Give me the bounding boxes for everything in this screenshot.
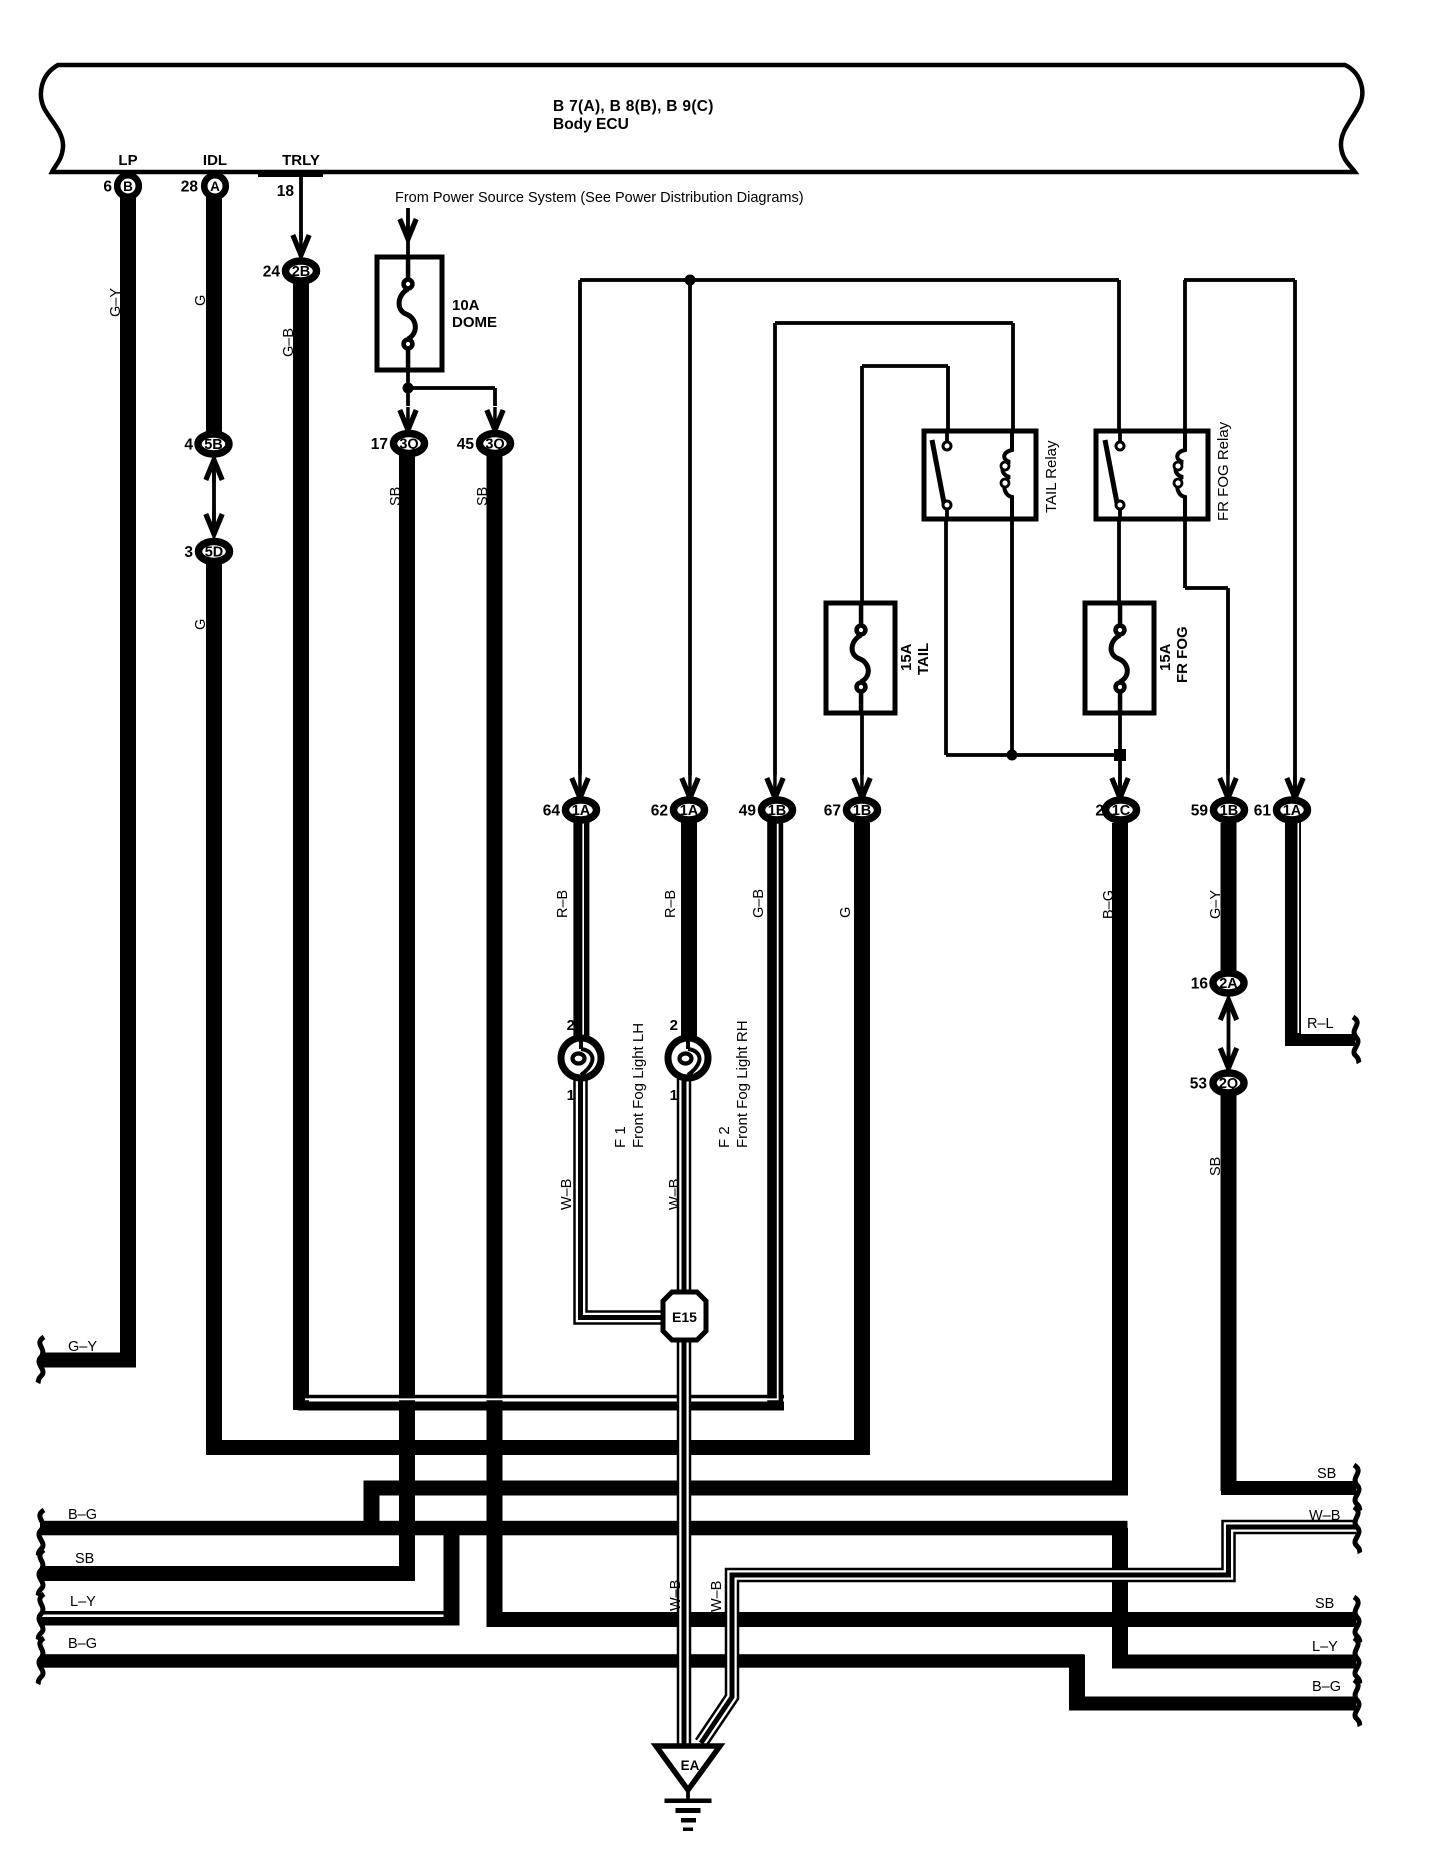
wire R-L from 61 down: [1285, 810, 1301, 1046]
svg-text:W–B: W–B: [1309, 1508, 1340, 1524]
svg-text:G–Y: G–Y: [68, 1339, 97, 1355]
svg-text:F 2: F 2: [716, 1126, 733, 1148]
svg-text:B: B: [123, 179, 133, 194]
svg-text:A: A: [210, 179, 220, 194]
SB right upper bus: [1221, 1481, 1356, 1495]
wire H1 to FR FOG relay switch: [1117, 280, 1121, 433]
svg-text:SB: SB: [1315, 1596, 1334, 1612]
torn end SB2 right: [1354, 1597, 1360, 1643]
ECU connector tab at TRLY: [258, 170, 323, 177]
svg-text:SB: SB: [475, 487, 491, 506]
svg-text:2: 2: [1095, 803, 1104, 820]
connector 5B pin 4: [198, 434, 229, 454]
svg-text:5D: 5D: [205, 545, 224, 561]
wire G-B from 2B down: [293, 270, 309, 1410]
svg-text:17: 17: [371, 436, 388, 453]
svg-text:1B: 1B: [853, 803, 872, 819]
connector 3Q pin 45: [480, 434, 511, 454]
wire W-B E15 to EA ground: [677, 1335, 692, 1746]
svg-text:4: 4: [184, 437, 193, 454]
svg-text:B 7(A), B 8(B), B 9(C): B 7(A), B 8(B), B 9(C): [553, 98, 714, 115]
Body ECU box: [41, 65, 1362, 172]
svg-text:TAIL: TAIL: [915, 643, 932, 675]
torn end R-L right: [1353, 1017, 1359, 1063]
svg-text:TRLY: TRLY: [282, 152, 320, 169]
wire H2 to TAIL relay coil: [1011, 323, 1015, 433]
svg-text:EA: EA: [681, 1758, 700, 1773]
svg-text:G–B: G–B: [751, 889, 767, 918]
svg-text:2A: 2A: [1219, 976, 1238, 992]
svg-text:49: 49: [739, 803, 757, 820]
svg-text:G–B: G–B: [281, 328, 297, 357]
svg-text:1A: 1A: [680, 803, 699, 819]
svg-text:3Q: 3Q: [485, 437, 504, 453]
connector circle A pin 28: [204, 175, 226, 197]
svg-text:G–Y: G–Y: [108, 288, 124, 317]
svg-text:L–Y: L–Y: [70, 1594, 96, 1610]
connector 1A pin 62: [674, 800, 705, 820]
connector 1B pin 49: [762, 800, 793, 820]
B-G bottom bus right: [1070, 1697, 1357, 1711]
svg-text:G–Y: G–Y: [1208, 890, 1224, 919]
node H3 line y366: [862, 364, 948, 368]
svg-text:2: 2: [567, 1017, 575, 1034]
svg-text:FR FOG: FR FOG: [1174, 626, 1191, 683]
svg-text:Body ECU: Body ECU: [553, 116, 629, 133]
fuse 10A DOME: [377, 257, 442, 370]
wire G-Y from pin B down and to left edge: [120, 190, 136, 1368]
svg-text:Front Fog Light RH: Front Fog Light RH: [734, 1020, 751, 1148]
svg-text:W–B: W–B: [668, 1580, 684, 1611]
ground point E15: [663, 1292, 706, 1340]
svg-text:E15: E15: [672, 1309, 697, 1325]
svg-text:67: 67: [824, 803, 841, 820]
svg-text:1A: 1A: [1283, 803, 1302, 819]
svg-text:From Power Source System (See: From Power Source System (See Power Dist…: [395, 190, 804, 206]
svg-text:1B: 1B: [1220, 803, 1239, 819]
fuse 15A FR FOG: [1085, 603, 1154, 713]
wire W-B fog RH to E15: [677, 1079, 692, 1300]
white stripe on 64 wire: [582, 823, 584, 1037]
svg-text:W–B: W–B: [709, 1581, 725, 1612]
svg-text:R–B: R–B: [663, 890, 679, 918]
2 1C lower drop to right L-Y: [1112, 1528, 1128, 1669]
wire H1 to 62: [688, 280, 692, 775]
torn end G-Y left: [38, 1337, 44, 1383]
connector circle B pin 6: [117, 175, 139, 197]
svg-text:3: 3: [184, 544, 193, 561]
svg-text:W–B: W–B: [559, 1179, 575, 1210]
svg-text:B–G: B–G: [1312, 1679, 1341, 1695]
wire SB from 59 down through 2A: [1221, 823, 1237, 971]
link 5B to 5D: [206, 460, 222, 480]
svg-text:24: 24: [263, 264, 281, 281]
ground EA: [656, 1746, 720, 1790]
torn end B-G right: [1354, 1680, 1360, 1726]
wire FR FOG fuse to 2: [1118, 711, 1122, 799]
svg-text:10A: 10A: [452, 297, 480, 314]
svg-text:B–G: B–G: [68, 1636, 97, 1652]
G-B riser to 49: [767, 810, 783, 1411]
svg-text:15A: 15A: [1157, 643, 1174, 671]
svg-text:L–Y: L–Y: [1312, 1639, 1338, 1655]
svg-text:59: 59: [1191, 803, 1209, 820]
B-G link line y1488: [364, 1481, 1128, 1496]
torn end B-G2 left: [38, 1638, 44, 1684]
connector 2B pin 24: [286, 261, 317, 281]
connector 2Q pin 53: [1213, 1073, 1244, 1093]
svg-text:LP: LP: [118, 152, 137, 169]
connector 2A pin 16: [1213, 973, 1244, 993]
connector 3Q pin 17: [394, 434, 425, 454]
wire FR FOG relay switch to fuse: [1117, 517, 1121, 605]
svg-text:1: 1: [670, 1087, 678, 1104]
connector 5D pin 3: [199, 542, 230, 562]
svg-text:G: G: [193, 295, 209, 306]
svg-text:45: 45: [457, 436, 475, 453]
wire SB from 45 down to right SB bus: [487, 443, 503, 1627]
svg-text:2B: 2B: [292, 264, 311, 280]
link 2A to 2Q: [1220, 1000, 1236, 1020]
torn end SB right: [1354, 1465, 1360, 1511]
svg-text:2: 2: [670, 1017, 678, 1034]
svg-text:1A: 1A: [572, 803, 591, 819]
connector 1B pin 59: [1214, 800, 1245, 820]
connector 1C pin 2: [1106, 800, 1137, 820]
svg-text:61: 61: [1254, 803, 1272, 820]
wire G from pin A down through 5B 5D to G bus: [206, 190, 222, 437]
svg-text:FR FOG Relay: FR FOG Relay: [1215, 421, 1232, 521]
fuse 15A TAIL: [826, 603, 895, 713]
svg-text:62: 62: [651, 803, 668, 820]
svg-text:R–L: R–L: [1307, 1016, 1334, 1032]
svg-text:F 1: F 1: [612, 1126, 629, 1148]
fog light RH bulb F2: [668, 1038, 708, 1078]
svg-text:SB: SB: [1208, 1157, 1224, 1176]
svg-text:Front Fog Light LH: Front Fog Light LH: [630, 1023, 647, 1148]
B-G jog riser x371: [364, 1481, 380, 1535]
connector 1B pin 67: [847, 800, 878, 820]
wire H1R to 61: [1293, 280, 1297, 799]
svg-text:1B: 1B: [768, 803, 787, 819]
L-Y right bus: [1113, 1655, 1357, 1669]
svg-text:16: 16: [1191, 976, 1209, 993]
TAIL relay: [924, 431, 1036, 519]
svg-text:DOME: DOME: [452, 314, 497, 331]
torn end L-Y left: [38, 1594, 44, 1640]
svg-text:W–B: W–B: [667, 1179, 683, 1210]
torn end B-G left: [38, 1510, 44, 1556]
white stripe on 49 wire + G-B bus: [305, 816, 778, 1399]
wire R-B 62 to fog light RH: [681, 810, 697, 1040]
wire B-G from 2 1C down: [1112, 823, 1128, 1496]
svg-text:5B: 5B: [204, 437, 223, 453]
connector 1A pin 61: [1277, 800, 1308, 820]
FR FOG relay: [1096, 431, 1208, 519]
wire DOME fuse output: [406, 370, 410, 406]
svg-text:B–G: B–G: [1101, 890, 1117, 919]
wire FR FOG relay coil to 59: [1183, 517, 1187, 588]
node H1 feed line y280: [580, 278, 1119, 282]
svg-text:IDL: IDL: [203, 152, 227, 169]
svg-text:1C: 1C: [1112, 803, 1131, 819]
svg-text:SB: SB: [75, 1551, 94, 1567]
wire W-B fog LH to E15: [581, 1079, 669, 1318]
svg-text:TAIL Relay: TAIL Relay: [1043, 440, 1060, 513]
svg-text:2Q: 2Q: [1219, 1076, 1238, 1092]
B-G bus y1528 from left edge to x1120: [40, 1521, 1128, 1536]
wire from power source into DOME fuse: [406, 208, 410, 256]
B-G bottom bus left: [40, 1654, 1085, 1668]
wire SB from 17 down to left SB bus: [399, 443, 415, 1581]
fog light LH bulb F1: [561, 1038, 601, 1078]
svg-text:28: 28: [181, 179, 199, 196]
wire branch to 45: [406, 386, 495, 390]
torn end L-Y right: [1354, 1638, 1360, 1684]
svg-text:3Q: 3Q: [399, 437, 418, 453]
svg-text:53: 53: [1190, 1076, 1208, 1093]
svg-text:G: G: [193, 619, 209, 630]
wire TAIL relay outputs to node y755: [944, 517, 948, 755]
G-B bus lower: thin rail + thick rail: [303, 1395, 784, 1399]
torn end SB left: [38, 1550, 44, 1596]
B-G to L-Y drop x451: [444, 1528, 460, 1626]
connector 1A pin 64: [566, 800, 597, 820]
wire H2 to 49: [773, 323, 777, 775]
svg-text:18: 18: [277, 183, 295, 200]
wire H3 to TAIL relay switch: [946, 366, 950, 433]
wire R-B 64 to fog light LH: [573, 810, 589, 1040]
node H1R line y280: [1184, 278, 1295, 282]
svg-text:B–G: B–G: [68, 1507, 97, 1523]
L-Y left bus rails: [44, 1611, 451, 1615]
svg-text:64: 64: [543, 803, 561, 820]
svg-text:SB: SB: [1317, 1466, 1336, 1482]
svg-text:G: G: [838, 907, 854, 918]
node H2 line y323: [775, 321, 1013, 325]
svg-text:15A: 15A: [898, 643, 915, 671]
G bus to 67: [207, 1440, 870, 1455]
wire H3 to TAIL fuse: [860, 366, 864, 605]
svg-text:6: 6: [103, 179, 112, 196]
B-G bottom jog: [1069, 1655, 1085, 1711]
svg-text:R–B: R–B: [555, 890, 571, 918]
wire W-B right bus to EA: [701, 1527, 1356, 1743]
wire H1R to FR FOG relay coil: [1183, 280, 1187, 433]
wire TRLY 18 to 2B: [299, 174, 303, 240]
svg-text:SB: SB: [388, 487, 404, 506]
wire TAIL fuse to 67: [860, 711, 864, 775]
white stripe on 61 wire: [1298, 823, 1300, 1033]
wire H1 to 64: [578, 280, 582, 775]
torn end W-B right: [1354, 1507, 1360, 1553]
svg-text:1: 1: [567, 1087, 575, 1104]
